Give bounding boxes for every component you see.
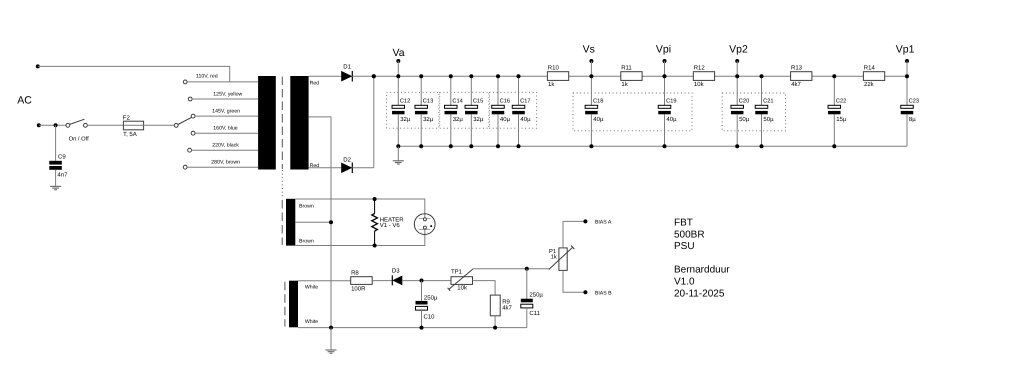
wire — [295, 199, 425, 218]
svg-text:V1.0: V1.0 — [674, 277, 695, 288]
svg-text:C11: C11 — [529, 310, 540, 317]
primary tap 125V, yellow — [188, 92, 258, 101]
svg-text:C21: C21 — [763, 98, 773, 104]
node BIAS A — [583, 219, 611, 225]
junction — [663, 144, 667, 148]
junction D2 branch — [372, 74, 376, 78]
svg-text:C22: C22 — [836, 98, 846, 104]
diode D2 — [341, 156, 352, 173]
resistor R9 — [490, 295, 512, 316]
svg-text:R13: R13 — [791, 65, 803, 72]
wire — [885, 75, 907, 77]
svg-text:40µ: 40µ — [666, 116, 677, 123]
junction — [517, 74, 521, 78]
svg-text:40µ: 40µ — [520, 116, 531, 123]
wire — [298, 280, 351, 282]
node Vpi — [656, 44, 671, 76]
capacitor group box C20-C21 — [722, 93, 785, 131]
resistor R14 — [863, 65, 884, 89]
wire — [715, 75, 791, 77]
svg-text:280V, brown: 280V, brown — [211, 159, 240, 165]
svg-text:On / Off: On / Off — [69, 135, 90, 142]
svg-text:Vp2: Vp2 — [729, 44, 748, 56]
node Vp2 — [729, 44, 748, 76]
junction — [735, 74, 739, 78]
node Vp1 — [896, 44, 915, 76]
ground — [50, 186, 61, 189]
svg-text:R11: R11 — [621, 65, 632, 72]
svg-text:Vpi: Vpi — [656, 44, 671, 56]
capacitor C14 — [445, 76, 464, 146]
transformer bias winding — [289, 281, 318, 328]
wire — [473, 281, 496, 296]
junction — [419, 144, 423, 148]
junction C9 tap — [54, 123, 58, 127]
svg-text:BIAS A: BIAS A — [595, 220, 612, 226]
junction — [589, 74, 593, 78]
transformer T1 HV secondary winding — [290, 76, 319, 170]
junction R9 bottom — [493, 326, 497, 330]
junction center tap — [329, 220, 333, 224]
AC input terminal bottom — [37, 123, 41, 127]
ground — [326, 350, 337, 353]
svg-text:R9: R9 — [502, 298, 510, 305]
svg-text:10k: 10k — [457, 285, 468, 292]
svg-text:AC: AC — [17, 95, 32, 107]
capacitor C19 — [658, 76, 677, 146]
capacitor group box C12-C13 — [387, 92, 439, 128]
wire — [372, 280, 392, 282]
svg-text:Vs: Vs — [583, 44, 595, 56]
capacitor C15 — [465, 76, 484, 146]
junction — [760, 144, 764, 148]
wire — [373, 76, 375, 168]
resistor R12 — [693, 65, 714, 89]
capacitor C23 — [901, 76, 919, 146]
junction — [735, 144, 739, 148]
capacitor C17 — [512, 76, 531, 146]
svg-text:250µ: 250µ — [424, 294, 438, 301]
switch voltage selector — [174, 117, 191, 127]
capacitor C22 — [828, 76, 847, 146]
capacitor group box C16-C17 — [489, 92, 536, 128]
svg-text:T, 5A: T, 5A — [123, 131, 137, 138]
svg-text:250µ: 250µ — [529, 291, 543, 298]
svg-text:145V, green: 145V, green — [212, 109, 240, 115]
wire — [309, 167, 342, 169]
primary tap 280V, brown — [183, 159, 258, 169]
svg-text:C10: C10 — [424, 313, 436, 320]
svg-text:1k: 1k — [548, 81, 555, 88]
wire bias return rail — [298, 327, 527, 329]
wire HV center tap — [309, 117, 331, 328]
svg-text:Brown: Brown — [299, 203, 314, 209]
svg-text:32µ: 32µ — [423, 116, 434, 123]
resistor R11 — [621, 65, 642, 89]
wire — [295, 229, 425, 245]
svg-text:125V, yellow: 125V, yellow — [213, 92, 242, 98]
wire — [811, 75, 863, 77]
resistor R10 — [547, 65, 568, 89]
junction C10 tap — [420, 279, 424, 283]
wire wiper bus — [473, 268, 549, 270]
svg-text:R8: R8 — [351, 269, 359, 276]
transformer heater winding — [286, 199, 314, 246]
wire — [563, 270, 585, 292]
svg-text:22k: 22k — [864, 81, 875, 88]
resistor R13 — [791, 65, 812, 89]
wire — [330, 328, 332, 350]
svg-text:PSU: PSU — [674, 241, 695, 252]
junction — [449, 144, 453, 148]
potentiometer P1 — [549, 246, 575, 271]
transformer core — [282, 77, 285, 327]
wire HV return rail — [398, 145, 907, 147]
transformer T1 primary winding — [258, 76, 276, 170]
svg-text:D1: D1 — [343, 64, 351, 71]
node Va — [393, 47, 405, 76]
svg-text:C14: C14 — [452, 98, 462, 104]
capacitor group box C18-C19 — [573, 93, 692, 131]
svg-text:R10: R10 — [548, 65, 560, 72]
junction — [663, 74, 667, 78]
ground — [393, 161, 404, 164]
svg-text:100R: 100R — [351, 285, 366, 292]
wire — [563, 221, 585, 248]
svg-text:1k: 1k — [621, 81, 628, 88]
capacitor C10 — [416, 281, 438, 328]
junction — [589, 144, 593, 148]
svg-text:15µ: 15µ — [836, 116, 847, 123]
junction — [496, 74, 500, 78]
junction — [905, 74, 909, 78]
svg-text:D2: D2 — [343, 156, 351, 163]
AC input terminal top — [36, 64, 40, 68]
wire — [144, 124, 175, 126]
svg-text:C23: C23 — [909, 98, 919, 104]
primary tap 110V, red — [183, 73, 258, 83]
svg-text:C18: C18 — [593, 98, 603, 104]
junction — [396, 74, 400, 78]
switch S1 On/Off — [66, 119, 89, 142]
svg-text:4n7: 4n7 — [57, 172, 68, 179]
primary tap 160V, blue — [191, 126, 258, 136]
wire — [39, 124, 66, 126]
svg-text:C16: C16 — [500, 98, 510, 104]
junction heater resistor bottom — [373, 244, 377, 248]
trimmer TP1 — [448, 269, 474, 292]
svg-text:50µ: 50µ — [763, 116, 774, 123]
svg-text:Red: Red — [310, 80, 320, 86]
junction — [496, 144, 500, 148]
capacitor C11 — [521, 269, 544, 328]
tube V1 heater pins — [414, 214, 435, 235]
diode D1 — [341, 64, 352, 82]
svg-text:1k: 1k — [551, 254, 557, 261]
svg-text:4k7: 4k7 — [791, 81, 801, 88]
capacitor C13 — [415, 76, 434, 146]
svg-text:8µ: 8µ — [909, 116, 916, 123]
junction — [832, 144, 836, 148]
wire — [397, 146, 399, 160]
svg-text:Bernardduur: Bernardduur — [674, 265, 730, 276]
svg-text:10k: 10k — [694, 81, 705, 88]
capacitor C20 — [731, 76, 750, 146]
svg-text:110V, red: 110V, red — [196, 73, 218, 79]
AC label — [17, 95, 32, 107]
svg-text:C13: C13 — [423, 98, 433, 104]
svg-text:White: White — [305, 319, 318, 325]
svg-text:R12: R12 — [694, 65, 706, 72]
svg-text:40µ: 40µ — [593, 116, 604, 123]
wire — [352, 75, 547, 77]
resistor heater load — [372, 199, 404, 246]
junction C11 tap — [525, 267, 529, 271]
primary tap 220V, black — [188, 142, 258, 152]
svg-text:R14: R14 — [864, 65, 876, 72]
svg-text:160V, blue: 160V, blue — [213, 126, 237, 132]
capacitor C9 — [49, 125, 68, 186]
svg-text:C15: C15 — [473, 98, 483, 104]
capacitor C21 — [755, 76, 774, 146]
wire — [641, 75, 693, 77]
svg-text:D3: D3 — [392, 268, 400, 275]
junction — [419, 74, 423, 78]
resistor R8 — [351, 269, 373, 292]
svg-text:C19: C19 — [666, 98, 676, 104]
junction — [517, 144, 521, 148]
svg-text:C17: C17 — [520, 98, 530, 104]
svg-text:220V, black: 220V, black — [212, 142, 239, 148]
wire — [38, 66, 230, 82]
svg-text:4k7: 4k7 — [502, 304, 512, 311]
fuse F2 — [123, 115, 144, 138]
wire heater center tap — [295, 221, 331, 223]
diode D3 — [392, 268, 402, 286]
svg-text:40µ: 40µ — [500, 116, 511, 123]
wire — [352, 167, 374, 169]
node Vs — [583, 44, 595, 76]
junction — [449, 74, 453, 78]
junction ground stub — [329, 326, 333, 330]
junction — [372, 74, 376, 78]
svg-text:White: White — [305, 285, 318, 291]
junction C10 bottom — [420, 326, 424, 330]
svg-text:20-11-2025: 20-11-2025 — [674, 288, 725, 299]
svg-text:32µ: 32µ — [400, 116, 411, 123]
svg-text:32µ: 32µ — [473, 116, 484, 123]
svg-text:BIAS B: BIAS B — [595, 291, 612, 297]
svg-text:Vp1: Vp1 — [896, 44, 915, 56]
title block — [674, 218, 730, 300]
junction — [469, 74, 473, 78]
capacitor C18 — [585, 76, 604, 146]
wire HV rail segments — [569, 75, 621, 77]
svg-text:50µ: 50µ — [739, 116, 750, 123]
svg-text:TP1: TP1 — [451, 269, 463, 276]
junction — [396, 144, 400, 148]
wire — [309, 75, 342, 77]
svg-text:Va: Va — [393, 47, 405, 59]
svg-text:500BR: 500BR — [674, 229, 705, 240]
junction heater resistor top — [373, 197, 377, 201]
wire — [87, 124, 123, 126]
svg-text:C12: C12 — [400, 98, 410, 104]
primary tap 145V, green — [191, 109, 258, 118]
svg-text:C20: C20 — [739, 98, 749, 104]
svg-text:FBT: FBT — [674, 218, 693, 229]
junction — [832, 74, 836, 78]
svg-text:32µ: 32µ — [453, 116, 464, 123]
junction — [760, 74, 764, 78]
wire — [402, 280, 451, 282]
capacitor C12 — [392, 76, 411, 146]
svg-text:C9: C9 — [58, 154, 66, 161]
svg-text:Brown: Brown — [299, 238, 314, 244]
capacitor group box C14-C15 — [440, 92, 489, 128]
svg-text:V1 - V6: V1 - V6 — [380, 222, 401, 229]
capacitor C16 — [492, 76, 511, 146]
junction — [469, 144, 473, 148]
node BIAS B — [583, 290, 612, 296]
wire — [494, 316, 496, 328]
svg-text:F2: F2 — [123, 115, 131, 122]
